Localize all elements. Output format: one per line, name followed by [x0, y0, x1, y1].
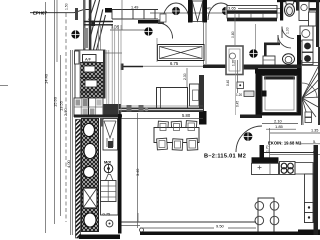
svg-text:5.: 5. [313, 140, 316, 144]
svg-text:15.60: 15.60 [53, 96, 58, 107]
svg-text:3.40: 3.40 [136, 169, 140, 176]
svg-text:1.20: 1.20 [232, 60, 236, 66]
svg-text:1.50: 1.50 [65, 3, 69, 10]
svg-text:B–2:115.01 M2: B–2:115.01 M2 [204, 154, 246, 160]
svg-text:14.40: 14.40 [44, 73, 49, 84]
svg-text:1.70: 1.70 [265, 145, 269, 152]
svg-text:6.75: 6.75 [170, 61, 179, 66]
svg-text:2.10: 2.10 [274, 119, 283, 124]
svg-text:5.80: 5.80 [182, 113, 191, 118]
svg-text:EPH67: EPH67 [33, 10, 47, 15]
svg-text:0.45: 0.45 [236, 101, 240, 107]
svg-text:0.40: 0.40 [226, 80, 230, 86]
svg-text:1.20: 1.20 [236, 93, 242, 97]
svg-text:3.65: 3.65 [228, 5, 237, 10]
svg-text:0.80: 0.80 [231, 31, 235, 38]
svg-text:EKOIN: 19.68 M2: EKOIN: 19.68 M2 [268, 141, 302, 146]
svg-text:1.00: 1.00 [286, 27, 290, 34]
svg-text:2.70: 2.70 [63, 107, 68, 116]
svg-text:1.40: 1.40 [204, 7, 211, 11]
svg-text:1.49: 1.49 [131, 6, 138, 10]
svg-text:1.35: 1.35 [311, 129, 318, 133]
svg-text:1.85: 1.85 [275, 124, 284, 129]
svg-text:0.75: 0.75 [103, 212, 112, 217]
svg-text:M/X: M/X [104, 160, 111, 165]
svg-text:2.30: 2.30 [183, 73, 187, 80]
svg-text:A/F: A/F [85, 57, 92, 62]
svg-text:9.50: 9.50 [216, 223, 225, 228]
